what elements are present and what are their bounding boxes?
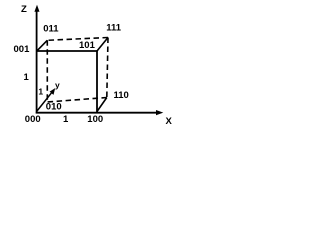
cube dashed back bottom edge (010-110)	[47, 98, 107, 103]
svg-text:011: 011	[43, 23, 59, 34]
X axis arrowhead	[156, 110, 163, 115]
svg-text:101: 101	[79, 40, 96, 51]
cube dashed back right edge (111-110)	[107, 38, 108, 98]
X axis	[36, 112, 158, 114]
cube front top edge (001-101)	[36, 50, 97, 52]
svg-text:100: 100	[87, 114, 103, 125]
y axis arrowhead	[50, 88, 56, 95]
svg-text:001: 001	[14, 44, 31, 55]
Z axis	[36, 10, 38, 114]
cube edge 001-011	[37, 40, 48, 51]
svg-text:Z: Z	[21, 4, 27, 15]
cube dashed back left edge (011-010)	[46, 40, 48, 102]
y axis arrow	[37, 93, 52, 111]
svg-text:1: 1	[24, 72, 30, 83]
cube dashed back top edge (011-111)	[47, 38, 108, 41]
cube edge 100-110	[97, 98, 107, 112]
svg-text:X: X	[166, 116, 173, 127]
svg-text:1: 1	[63, 114, 69, 125]
svg-text:010: 010	[46, 102, 62, 113]
cube edge 101-111	[97, 38, 108, 52]
cube front right edge (101-100)	[96, 51, 98, 114]
svg-text:111: 111	[106, 23, 122, 34]
svg-text:000: 000	[25, 114, 41, 125]
svg-text:110: 110	[114, 90, 129, 101]
svg-text:y: y	[55, 80, 60, 90]
Z axis arrowhead	[34, 5, 39, 12]
svg-text:1: 1	[38, 86, 43, 96]
